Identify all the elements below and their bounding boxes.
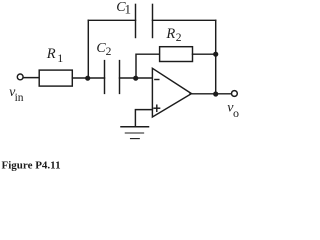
wire C2 to op-amp inverting input — [120, 77, 153, 79]
op-amp U1 — [152, 68, 191, 117]
wire input to R1 — [23, 77, 39, 79]
capacitor C1 — [135, 4, 137, 37]
input terminal vin — [17, 74, 23, 80]
svg-text:2: 2 — [176, 32, 182, 44]
svg-text:in: in — [15, 92, 24, 104]
svg-text:o: o — [233, 106, 239, 120]
wire node A up — [87, 20, 89, 78]
capacitor C2 — [104, 61, 106, 94]
resistor R1 — [39, 70, 72, 86]
svg-text:R: R — [165, 26, 175, 42]
svg-text:2: 2 — [106, 46, 112, 58]
wire right rail down — [215, 20, 217, 94]
wire R2 to right rail — [193, 53, 216, 55]
node A junction dot — [85, 76, 90, 81]
junction dot output — [213, 91, 218, 96]
svg-text:Figure P4.11: Figure P4.11 — [2, 160, 61, 172]
wire top to C1 — [88, 19, 135, 21]
junction dot R2 right — [213, 52, 218, 57]
wire R1 to C2 — [73, 77, 105, 79]
resistor R2 — [160, 47, 193, 62]
op-amp plus sign — [154, 107, 160, 109]
wire node B up to R2 — [136, 54, 160, 78]
wire non-inverting input to ground — [135, 110, 152, 127]
op-amp minus sign — [155, 79, 159, 81]
wire op-amp output — [190, 93, 231, 95]
svg-text:R: R — [46, 46, 56, 62]
svg-text:1: 1 — [125, 2, 132, 17]
node B junction dot — [133, 76, 138, 81]
wire C1 to right rail — [153, 19, 216, 21]
ground — [121, 126, 149, 128]
output terminal vo — [232, 91, 238, 97]
svg-text:1: 1 — [57, 51, 63, 65]
